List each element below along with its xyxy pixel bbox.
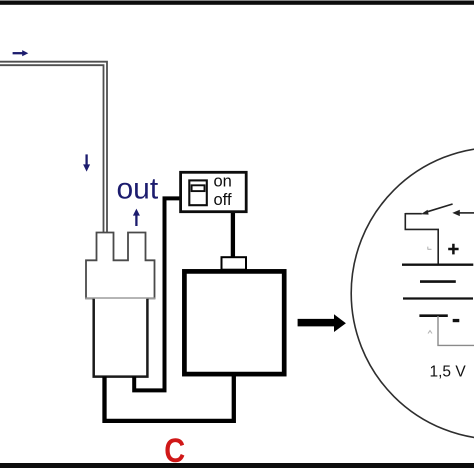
rocker switch icon outer (189, 180, 207, 205)
schematic wire switch to cell (405, 213, 438, 264)
schematic switch blade (426, 204, 453, 212)
gas tube outer wall (0, 62, 107, 233)
top frame bar (0, 1, 474, 5)
wire: switch to battery terminal (231, 212, 235, 259)
blue arrow up (gas out) (135, 214, 137, 226)
svg-text:C: C (164, 430, 185, 469)
wire: switch to left electrode (134, 198, 180, 390)
battery box (184, 271, 284, 374)
plus sign (448, 244, 458, 255)
blue arrow right (gas in) (13, 52, 24, 54)
flask lower vessel (94, 299, 148, 377)
svg-text:off: off (214, 191, 232, 209)
schematic switch line (405, 213, 422, 215)
svg-text:on: on (214, 173, 232, 191)
cell plate short 1 (420, 280, 456, 283)
tiny mark lower (428, 331, 432, 334)
battery terminal (222, 257, 247, 270)
flask body bottom line (85, 297, 155, 299)
schematic press arrowhead (452, 210, 460, 216)
big arrow to circle (298, 314, 346, 332)
schematic bottom wire (438, 316, 474, 345)
switch box (181, 172, 247, 211)
blue arrow down (gas in tube) (85, 154, 87, 165)
cell plate long 2 (403, 297, 473, 299)
cell plate long 1 (402, 264, 473, 266)
gas tube inner wall (0, 65, 104, 232)
wire: battery bottom to right electrode (105, 376, 234, 421)
bottom frame bar (0, 463, 474, 468)
schematic press arrow line (458, 212, 474, 214)
cell plate short 2 (419, 314, 447, 317)
minus sign (453, 319, 460, 322)
magnifier circle (351, 147, 474, 439)
tiny mark upper (428, 247, 432, 250)
rocker switch icon inner (192, 185, 205, 191)
flask (two-neck cell) outline (86, 233, 155, 299)
schematic switch blade arrowhead (421, 210, 429, 215)
svg-text:1,5 V: 1,5 V (430, 363, 467, 380)
svg-text:out: out (117, 173, 159, 206)
